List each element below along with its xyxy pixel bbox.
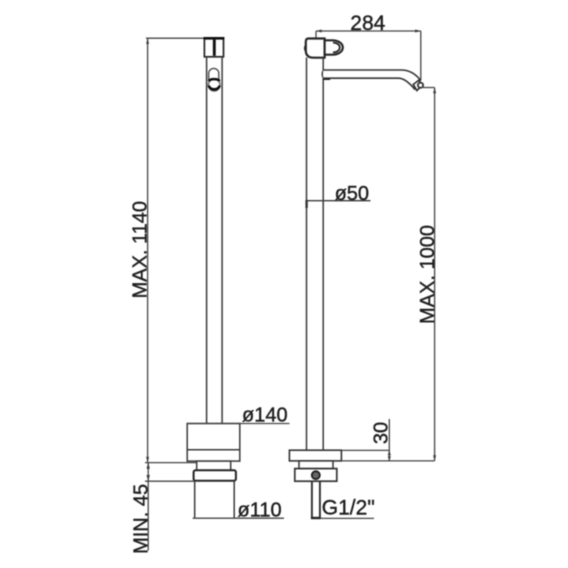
mounting neck (front view) [299, 461, 333, 469]
handle knob (side view) [208, 79, 220, 91]
extension line sleeve shoulder [145, 480, 194, 482]
label G1/2" [322, 497, 375, 520]
svg-text:ø110: ø110 [238, 499, 282, 521]
lever handle (front view) [325, 40, 343, 54]
label 30 [371, 422, 393, 444]
wire: outlet to MAX.1000 dimension line [421, 87, 435, 89]
dimension line MAX. 1140 [146, 38, 149, 462]
mounting neck (side view) [197, 461, 231, 470]
svg-text:MAX. 1140: MAX. 1140 [130, 201, 152, 298]
valve body (front view) [305, 39, 325, 58]
base block ø140 (side view) [187, 424, 240, 462]
wire: MAX.1140 top extension line [146, 37, 205, 39]
extension line plate bottom [341, 460, 434, 462]
extension line handle top [315, 31, 317, 38]
dimension line 284 [316, 30, 421, 33]
svg-text:G1/2": G1/2" [322, 497, 375, 520]
svg-text:284: 284 [350, 12, 385, 35]
faucet cap (side view) [204, 38, 225, 57]
base plate (front view) [289, 450, 341, 461]
aerator [413, 80, 423, 90]
svg-text:ø140: ø140 [242, 404, 288, 426]
floor sleeve ø110 (side view) [195, 481, 235, 519]
gland block (front view) [295, 469, 337, 482]
svg-text:MAX. 1000: MAX. 1000 [417, 225, 439, 324]
leader line G1/2 [320, 517, 374, 519]
extension line plate top [341, 449, 389, 451]
leader line ø50 [307, 200, 371, 208]
svg-text:MIN. 45: MIN. 45 [131, 484, 153, 554]
label MAX. 1000 [417, 225, 439, 324]
faucet body column (side view) [207, 57, 223, 450]
label ø110 [238, 499, 282, 521]
dimension line MAX. 1000 [433, 88, 436, 461]
svg-text:ø50: ø50 [335, 183, 369, 205]
dimension line 30 [388, 419, 391, 461]
leader line ø140 [187, 423, 289, 425]
leader line ø110 [193, 517, 284, 519]
set screw [312, 471, 320, 479]
riser column (front view) [307, 58, 331, 451]
spout [323, 70, 420, 89]
sleeve collar ring (side view) [194, 470, 236, 480]
lever pin (side view) [213, 40, 216, 56]
svg-text:30: 30 [371, 422, 393, 444]
label MIN. 45 [131, 484, 153, 554]
label ø140 [242, 404, 288, 426]
label 284 [350, 12, 385, 35]
extension line spout end [420, 31, 422, 80]
supply pipe G1/2 [311, 481, 321, 518]
label MAX. 1140 [130, 201, 152, 298]
dimension line MIN. 45 [147, 463, 150, 551]
label ø50 [335, 183, 369, 205]
extension line flange bottom [145, 462, 197, 464]
handle grip (side view) [209, 68, 219, 84]
